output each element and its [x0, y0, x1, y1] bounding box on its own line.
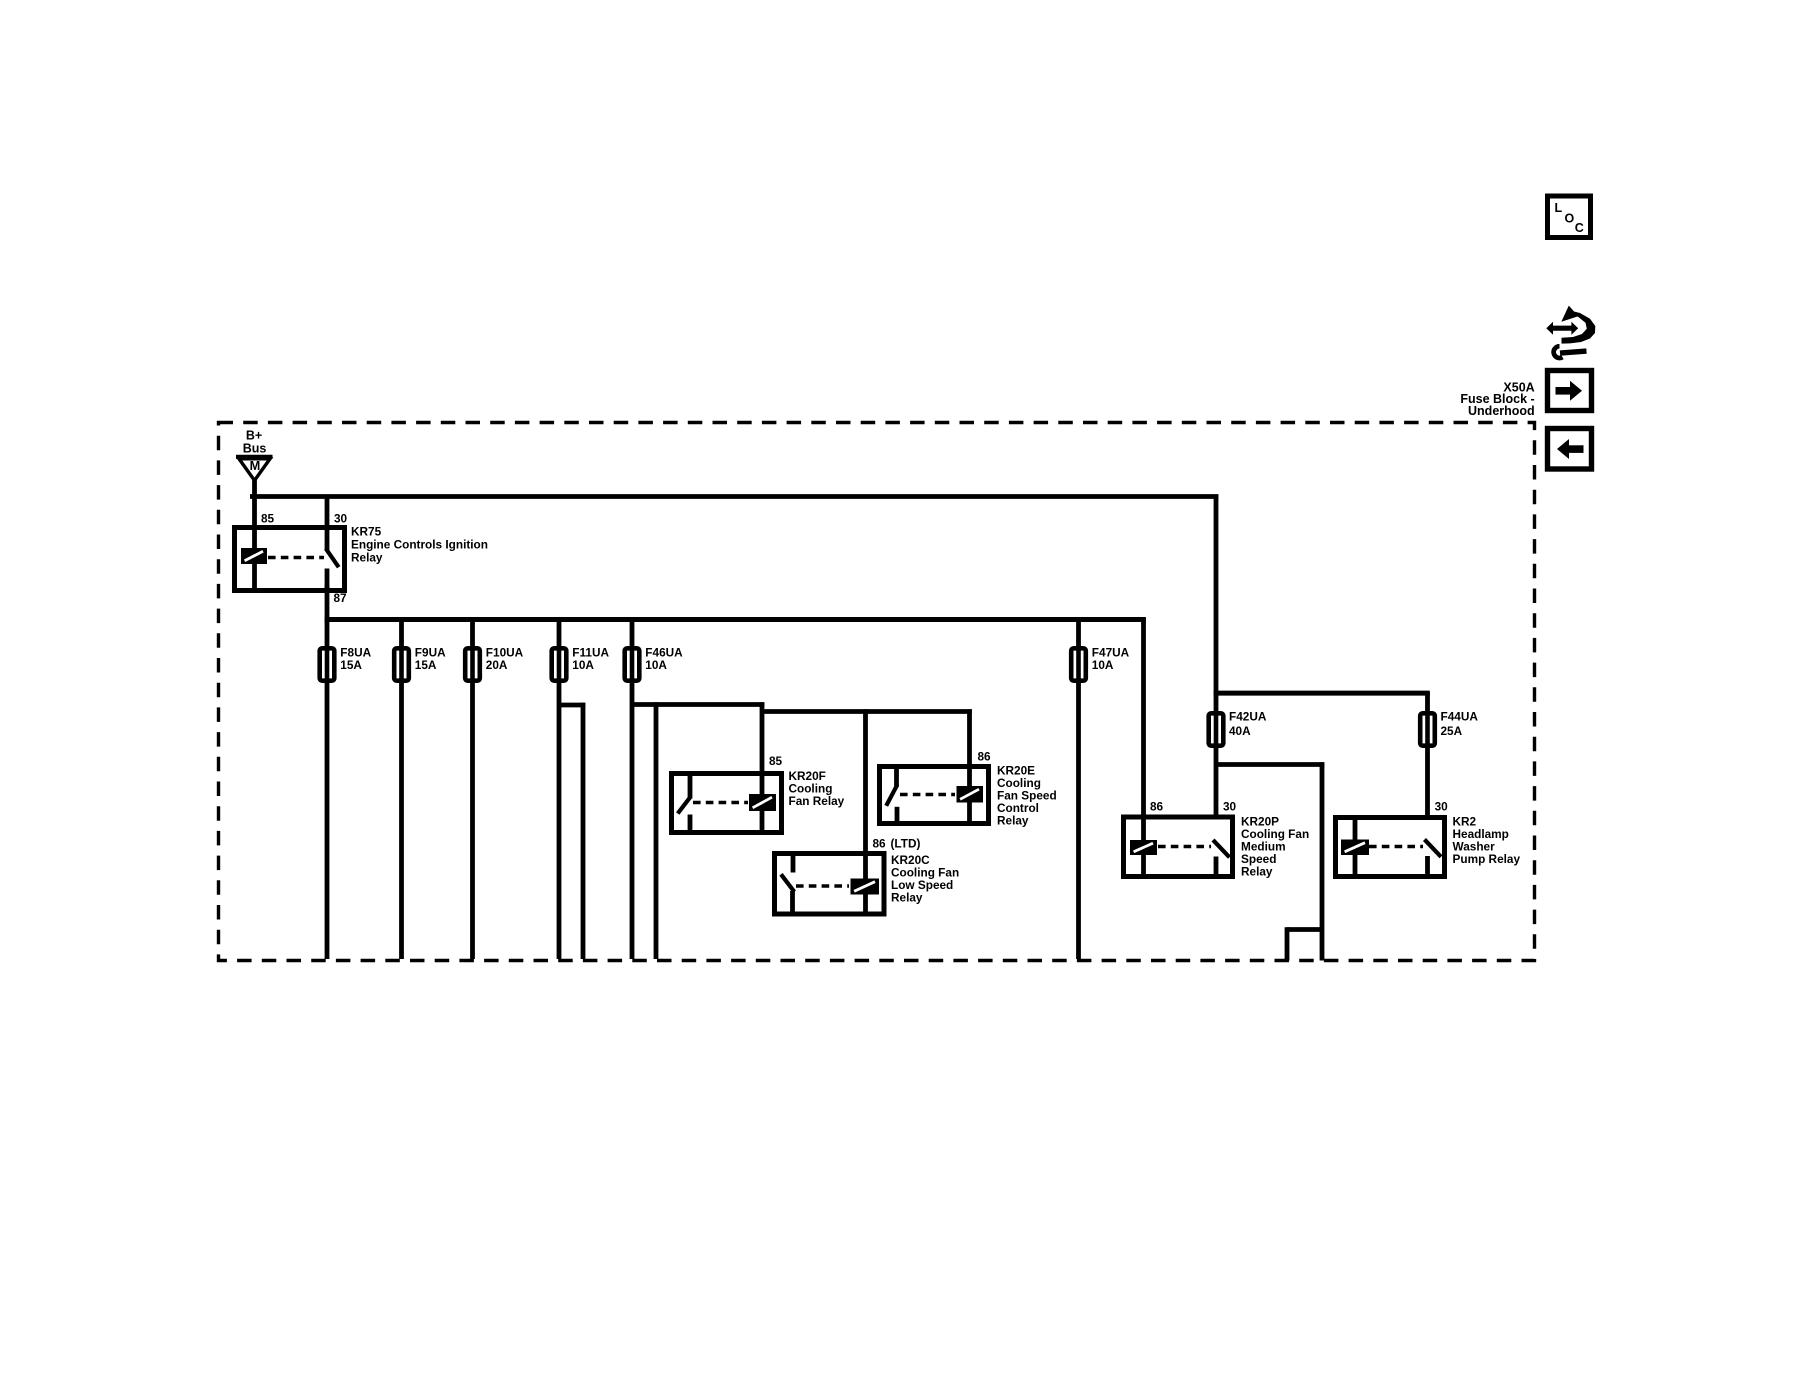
relay KR20P switch	[1213, 840, 1230, 876]
wire fuse bus (horizontal 87 feed)	[325, 617, 1146, 622]
wire KR75 pin 87 to fuse bus	[325, 585, 330, 622]
power triangle M (B+ bus tap)	[236, 457, 273, 481]
svg-text:25A: 25A	[1441, 724, 1463, 738]
label KR75 Engine Controls Ignition Relay	[351, 524, 488, 564]
wire main B+ bus (horizontal)	[250, 494, 1218, 499]
relay KR20F coil-switch link	[693, 801, 748, 805]
wire node to KR20F coil (pin 85)	[760, 702, 765, 831]
connector step at boundary	[1287, 927, 1322, 960]
fuse F47UA	[1071, 648, 1086, 680]
LOC legend box	[1548, 196, 1591, 238]
relay KR20P coil-switch link	[1158, 845, 1211, 849]
label pin 87 (KR75)	[334, 591, 348, 605]
wire KR75 pin 30 from bus	[325, 497, 330, 529]
svg-text:30: 30	[1435, 799, 1449, 813]
svg-text:85: 85	[261, 511, 275, 525]
label KR20C Cooling Fan Low Speed Relay	[891, 853, 959, 905]
relay KR20F box	[672, 774, 782, 833]
wire branch right from F42UA output	[1216, 762, 1324, 767]
label F10UA 20A	[486, 645, 524, 671]
svg-text:F42UA: F42UA	[1229, 709, 1267, 723]
wire F42UA to KR20P pin 30	[1214, 746, 1219, 817]
relay KR75 switch	[326, 530, 339, 590]
svg-text:86: 86	[1150, 800, 1164, 814]
label pin 86 (KR20P)	[1150, 800, 1164, 814]
wire F11UA branch jog	[559, 703, 585, 959]
wire F46UA column	[630, 620, 635, 960]
forward arrow box	[1548, 371, 1592, 411]
label X50A Fuse Block - Underhood	[1460, 380, 1534, 418]
wire F44UA to KR2 pin 30	[1425, 746, 1430, 818]
label KR20F Cooling Fan Relay	[789, 769, 845, 808]
relay KR75 coil-switch link	[268, 556, 324, 560]
svg-text:L: L	[1555, 201, 1563, 215]
label pin 85 (KR75)	[261, 511, 275, 525]
relay KR75 coil	[241, 548, 267, 564]
relay KR20F coil	[749, 794, 776, 811]
relay KR2 box	[1336, 818, 1445, 877]
svg-text:Fan Relay: Fan Relay	[789, 794, 845, 808]
svg-text:85: 85	[769, 754, 783, 768]
svg-text:30: 30	[334, 511, 348, 525]
label F46UA 10A	[645, 645, 683, 671]
svg-text:87: 87	[334, 591, 348, 605]
swap/wrench icon	[1546, 306, 1595, 358]
back arrow box	[1548, 429, 1592, 470]
wire relay coil bus (horizontal)	[762, 709, 972, 714]
wire F8UA column	[325, 620, 330, 960]
fuse F9UA	[394, 648, 409, 680]
relay KR20F switch	[678, 774, 691, 832]
relay KR20C switch	[781, 854, 794, 914]
svg-text:20A: 20A	[486, 658, 508, 672]
svg-text:10A: 10A	[1092, 658, 1114, 672]
wire B+ tap to KR75 pin 85	[252, 479, 257, 588]
svg-text:Relay: Relay	[1241, 865, 1273, 879]
relay KR20C coil-switch link	[796, 884, 849, 888]
wire KR2 coil stub	[1353, 818, 1358, 876]
wire down to connector (x1322)	[1320, 762, 1325, 960]
relay KR2 coil-switch link	[1369, 845, 1423, 849]
relay KR75 box	[235, 528, 345, 591]
wire branch jog down from F46UA node	[654, 702, 659, 959]
wire feeder to F44UA	[1425, 692, 1430, 714]
fuse F11UA	[552, 648, 567, 680]
svg-text:10A: 10A	[572, 658, 594, 672]
svg-text:KR75: KR75	[351, 524, 382, 538]
label F42UA 40A	[1229, 709, 1267, 738]
label pin 30 (KR2)	[1435, 799, 1449, 813]
svg-text:O: O	[1565, 212, 1575, 226]
relay KR20P box	[1124, 817, 1233, 877]
fuse F42UA	[1209, 713, 1224, 745]
label pin 30 (KR20P)	[1223, 800, 1237, 814]
relay KR20E switch	[886, 767, 897, 823]
label F8UA 15A	[340, 645, 371, 671]
relay KR20C box	[775, 854, 885, 915]
relay KR20P coil	[1130, 840, 1157, 855]
svg-text:C: C	[1575, 221, 1584, 235]
relay KR20E coil-switch link	[900, 793, 955, 797]
wire drop to KR20C coil (pin 86)	[863, 709, 868, 913]
svg-text:Underhood: Underhood	[1468, 404, 1535, 418]
fuse block X50A dashed boundary	[219, 423, 1535, 961]
label KR2 Headlamp Washer Pump Relay	[1453, 815, 1521, 867]
wire fuse bus to KR20P coil	[1141, 617, 1146, 876]
svg-text:M: M	[250, 458, 261, 473]
relay KR20E coil	[957, 786, 984, 803]
label B+ Bus	[243, 429, 267, 456]
label pin 30 (KR75)	[334, 511, 348, 525]
wire drop to KR20E coil (pin 86)	[967, 709, 972, 822]
svg-text:Relay: Relay	[351, 550, 383, 564]
svg-text:Engine Controls Ignition: Engine Controls Ignition	[351, 537, 488, 551]
wire F11UA column	[557, 620, 562, 960]
svg-text:F44UA: F44UA	[1441, 709, 1479, 723]
fuse F44UA	[1420, 713, 1435, 745]
svg-text:(LTD): (LTD)	[891, 836, 921, 850]
fuse F46UA	[625, 648, 640, 680]
fuse F10UA	[465, 648, 480, 680]
wire F46UA branch to relays (horizontal)	[632, 702, 764, 707]
svg-text:86: 86	[978, 749, 992, 763]
relay KR2 switch	[1425, 840, 1442, 877]
wire F10UA column	[470, 620, 475, 960]
svg-text:Bus: Bus	[243, 442, 267, 456]
wire F9UA column	[399, 620, 404, 960]
label F11UA 10A	[572, 645, 609, 671]
svg-text:15A: 15A	[340, 658, 362, 672]
svg-text:10A: 10A	[645, 658, 667, 672]
label pin 86 (LTD) (KR20C)	[873, 836, 921, 850]
label KR20P Cooling Fan Medium Speed Relay	[1241, 815, 1309, 879]
svg-text:B+: B+	[246, 429, 262, 443]
wire bus to F42UA/F44UA branch (down then right)	[1214, 495, 1430, 696]
relay KR20E box	[880, 767, 989, 824]
relay KR2 coil	[1341, 840, 1369, 856]
label F9UA 15A	[415, 645, 446, 671]
svg-text:30: 30	[1223, 800, 1237, 814]
svg-text:15A: 15A	[415, 658, 437, 672]
wire feeder to F42UA	[1214, 692, 1219, 714]
svg-text:86: 86	[873, 836, 887, 850]
wire F47UA column	[1076, 620, 1081, 960]
label pin 86 (KR20E)	[978, 749, 992, 763]
svg-text:Relay: Relay	[891, 891, 923, 905]
label pin 85 (KR20F)	[769, 754, 783, 768]
svg-text:40A: 40A	[1229, 724, 1251, 738]
svg-text:Relay: Relay	[997, 814, 1029, 828]
label F44UA 25A	[1441, 709, 1479, 738]
label KR20E Cooling Fan Speed Control Relay	[997, 764, 1057, 828]
svg-text:Pump Relay: Pump Relay	[1453, 852, 1521, 866]
relay KR20C coil	[851, 879, 880, 895]
label F47UA 10A	[1092, 645, 1130, 671]
fuse F8UA	[320, 648, 335, 680]
